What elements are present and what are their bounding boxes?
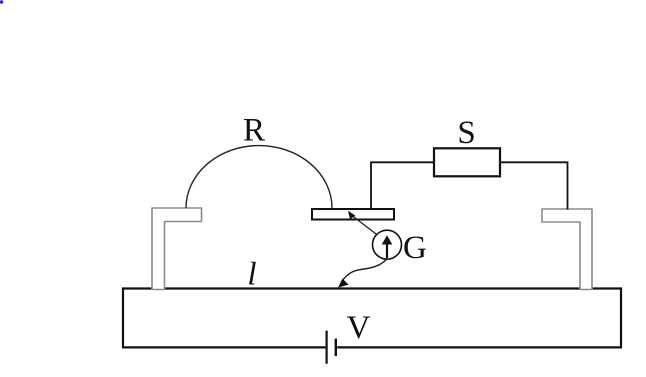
left metal bracket [152, 208, 202, 290]
wire bottom-left segment [122, 346, 325, 348]
galvanometer G lead to strip (arrow) [352, 216, 378, 236]
middle contact strip [312, 209, 394, 220]
svg-text:S: S [457, 115, 475, 151]
wire bottom-right segment [337, 346, 622, 348]
galvanometer needle arrow [386, 244, 388, 259]
resistor S (box) [434, 148, 500, 176]
wire S to right bracket [500, 162, 568, 209]
wire strip to S [371, 162, 434, 209]
svg-text:G: G [403, 230, 427, 266]
svg-text:V: V [347, 310, 371, 346]
right metal bracket [542, 209, 592, 290]
battery short plate [335, 339, 337, 356]
bridge board (rectangle with battery gap in bottom edge) [123, 289, 621, 348]
blue dot artifact top-left [0, 0, 3, 4]
resistor R (arc coil) [186, 146, 332, 208]
jockey wire (curved) from G to bridge wire [341, 259, 387, 282]
svg-text:l: l [247, 257, 256, 293]
svg-text:R: R [243, 113, 265, 149]
jockey arrowhead [338, 279, 349, 288]
galvanometer G circle [373, 230, 402, 259]
battery long plate [326, 331, 328, 364]
